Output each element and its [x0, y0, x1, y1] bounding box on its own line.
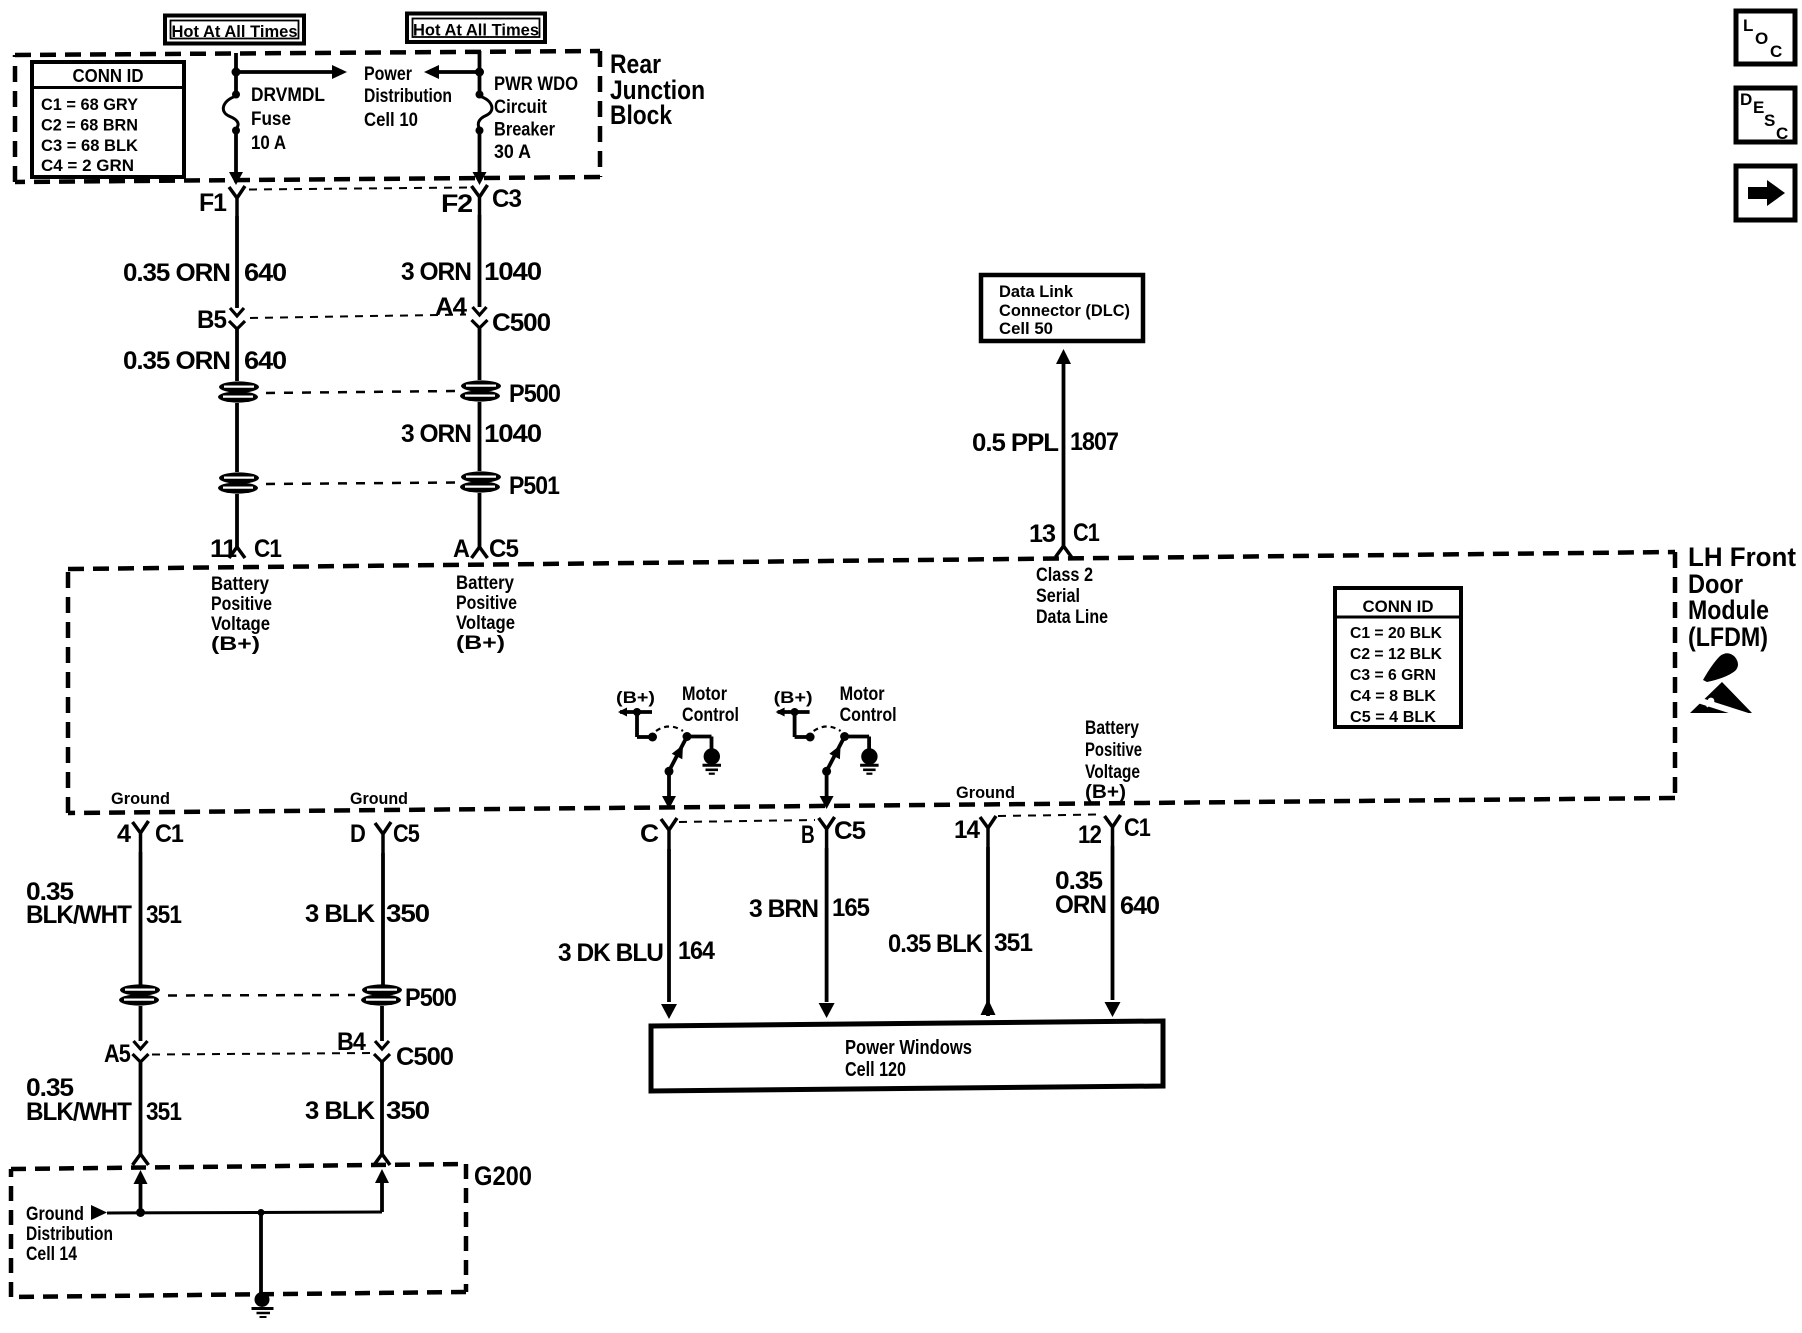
- motor control switch 2: motor to ground: [845, 737, 879, 774]
- svg-text:Motor: Motor: [682, 684, 728, 705]
- svg-text:Voltage: Voltage: [1085, 762, 1140, 783]
- dashed link P500 (ground): [168, 994, 355, 997]
- svg-text:Ground: Ground: [956, 783, 1015, 802]
- svg-text:C1: C1: [1124, 814, 1151, 842]
- svg-text:L: L: [1743, 16, 1753, 35]
- svg-text:(LFDM): (LFDM): [1688, 622, 1768, 652]
- svg-text:F2: F2: [441, 190, 472, 218]
- svg-text:C500: C500: [396, 1043, 453, 1071]
- circuit breaker PWR WDO 30 A: [476, 91, 492, 135]
- wire: left riser into G200 (arrow up): [134, 1170, 148, 1213]
- svg-text:13: 13: [1029, 520, 1055, 548]
- pin 13 connector C1: [1029, 519, 1100, 557]
- grommet P500 (right wire): [460, 380, 560, 408]
- wire: P500 to B4: [380, 1006, 384, 1041]
- svg-text:Hot At All Times: Hot At All Times: [413, 21, 539, 40]
- svg-text:Connector (DLC): Connector (DLC): [999, 301, 1130, 320]
- dashed connector line F1 to F2: [249, 188, 468, 190]
- dashed connector line 14 to 12: [998, 815, 1100, 817]
- wire 3 BLK 350 (pin D to P500): [381, 853, 385, 985]
- arrow wire to Power Distribution (left pointing): [424, 65, 477, 79]
- forward arrow nav box: [1736, 166, 1795, 220]
- label: DRVMDL Fuse 10 A: [251, 85, 325, 154]
- svg-text:Control: Control: [840, 705, 897, 726]
- pin F2 connector C3 terminal: [441, 185, 521, 218]
- LOC nav box: [1736, 11, 1795, 64]
- Data Link Connector (DLC) box: [981, 275, 1143, 341]
- svg-text:BLK/WHT: BLK/WHT: [26, 901, 132, 929]
- svg-text:C: C: [640, 820, 659, 848]
- inline connector A5: [104, 1040, 149, 1068]
- pin 11 connector C1: [210, 535, 282, 563]
- wire 3 BLK 350 (B4 to G200): [374, 1062, 390, 1165]
- svg-text:D: D: [350, 820, 365, 848]
- svg-text:4: 4: [117, 820, 131, 848]
- DESC nav box: [1736, 88, 1795, 143]
- pin 4 connector C1 terminal: [117, 820, 184, 852]
- label: 0.5 PPL 1807: [972, 428, 1118, 457]
- svg-text:C5 = 4 BLK: C5 = 4 BLK: [1350, 709, 1436, 726]
- svg-text:10 A: 10 A: [251, 133, 286, 154]
- svg-text:(B+): (B+): [456, 633, 505, 654]
- svg-text:C1: C1: [155, 820, 184, 848]
- svg-text:1040: 1040: [484, 420, 541, 448]
- grommet P501 (right wire): [460, 471, 560, 500]
- grommet P500 (left wire): [218, 381, 259, 402]
- wire: fuse output arrow to F1: [229, 131, 243, 185]
- fuse DRVMDL 10 A: [223, 91, 240, 135]
- wire 0.35 ORN 640 (12 to Power Windows): [1105, 846, 1121, 1017]
- wire: A4 to P500 grommet: [478, 328, 482, 380]
- svg-text:14: 14: [954, 816, 980, 844]
- svg-text:Battery: Battery: [456, 573, 514, 594]
- label: 3 BLK 350 (second): [305, 1097, 429, 1125]
- svg-text:Distribution: Distribution: [26, 1224, 113, 1245]
- label: 0.35 BLK/WHT 351: [26, 878, 182, 929]
- svg-text:C5: C5: [393, 820, 420, 848]
- svg-text:0.35 ORN: 0.35 ORN: [123, 259, 230, 287]
- svg-text:30 A: 30 A: [494, 142, 531, 163]
- pin D connector C5 terminal: [350, 820, 420, 853]
- svg-text:Cell 120: Cell 120: [845, 1059, 906, 1081]
- Hot At All Times box (left): [165, 16, 304, 44]
- svg-text:Positive: Positive: [1085, 740, 1142, 761]
- svg-text:164: 164: [678, 937, 715, 965]
- wire: motor control 1 arm to module edge: [662, 771, 676, 809]
- motor control switch 1: motor to ground: [687, 737, 721, 774]
- svg-text:Class 2: Class 2: [1036, 565, 1093, 586]
- junction dot on bus (ground drop): [258, 1209, 265, 1216]
- svg-text:351: 351: [146, 901, 182, 929]
- label: Battery Positive Voltage (B+) above pin 12: [1085, 718, 1142, 803]
- svg-text:Fuse: Fuse: [251, 109, 291, 130]
- dashed link P500: [266, 391, 455, 393]
- svg-text:Circuit: Circuit: [494, 97, 548, 118]
- pin F1 connector terminal: [199, 186, 245, 217]
- svg-text:3 BLK: 3 BLK: [305, 1097, 375, 1125]
- svg-text:(B+): (B+): [774, 688, 813, 707]
- dashed connector line A5 to B4: [152, 1053, 372, 1055]
- svg-text:1040: 1040: [484, 258, 541, 286]
- label: 3 BLK 350: [305, 900, 429, 928]
- label: 0.35 ORN 640 (second): [123, 347, 286, 375]
- grommet P501 (left wire): [218, 472, 259, 493]
- svg-text:Ground: Ground: [350, 789, 408, 808]
- motor control switch 2: switch arm: [822, 737, 845, 776]
- label: 0.35 BLK/WHT 351 (second): [26, 1074, 182, 1126]
- label: Class 2 Serial Data Line: [1036, 565, 1108, 628]
- svg-text:C5: C5: [489, 535, 519, 563]
- svg-text:C: C: [1776, 124, 1788, 143]
- svg-text:12: 12: [1078, 821, 1101, 849]
- wire: P501 to pin 11: [235, 494, 239, 548]
- motor control switch 1: (B+) feed stub: [618, 708, 652, 738]
- svg-text:ORN: ORN: [1055, 891, 1106, 919]
- svg-text:3 ORN: 3 ORN: [401, 258, 471, 286]
- svg-text:C4 = 2 GRN: C4 = 2 GRN: [41, 156, 134, 175]
- svg-text:Cell 50: Cell 50: [999, 319, 1053, 338]
- wire 3 ORN 1040 (F2 to A4): [478, 215, 482, 307]
- pin 14 terminal: [954, 816, 996, 847]
- svg-text:165: 165: [832, 894, 870, 922]
- svg-text:O: O: [1755, 29, 1768, 48]
- wire 0.35 BLK 351 (14 to Power Windows, ground arrow): [981, 847, 996, 1016]
- wire: P500 to P501 (left): [235, 403, 239, 472]
- arrow from Ground Distribution label: [91, 1205, 107, 1220]
- junction dot at fuse top: [232, 68, 241, 77]
- label: Motor Control 2: [840, 684, 897, 726]
- svg-text:640: 640: [244, 259, 286, 287]
- label: 3 BRN 165: [749, 894, 870, 923]
- wire: drop to ground electrode G200: [259, 1213, 263, 1293]
- grommet P500 (ground wire right): [361, 984, 456, 1012]
- wire 0.35 ORN 640 (F1 to B5): [235, 216, 239, 308]
- label: (B+) for motor control 1: [616, 688, 655, 707]
- svg-text:(B+): (B+): [1085, 782, 1126, 803]
- wire: B5 to P500 grommet: [235, 329, 239, 381]
- svg-text:351: 351: [146, 1098, 182, 1126]
- svg-text:P500: P500: [509, 380, 560, 408]
- label: (B+) for motor control 2: [774, 688, 813, 707]
- svg-text:Battery: Battery: [1085, 718, 1139, 739]
- wire 3 DK BLU 164 (C to Power Windows): [661, 849, 677, 1019]
- svg-text:Power: Power: [364, 64, 412, 85]
- svg-text:C1 = 20 BLK: C1 = 20 BLK: [1350, 625, 1442, 642]
- svg-text:Positive: Positive: [456, 593, 517, 614]
- svg-text:B4: B4: [337, 1028, 366, 1056]
- svg-text:3 DK BLU: 3 DK BLU: [558, 939, 663, 967]
- wire: breaker output arrow to F2: [473, 131, 487, 185]
- svg-text:Data Link: Data Link: [999, 282, 1074, 301]
- Power Windows Cell 120 box: [651, 1021, 1163, 1091]
- svg-text:Hot At All Times: Hot At All Times: [172, 22, 298, 41]
- label: LH Front Door Module (LFDM): [1688, 542, 1796, 652]
- wire 0.5 PPL 1807 arrow to DLC: [1056, 349, 1071, 546]
- CONN ID table (Rear Junction Block): [32, 62, 184, 177]
- svg-text:A5: A5: [104, 1040, 131, 1068]
- svg-text:Data Line: Data Line: [1036, 607, 1108, 628]
- svg-text:(B+): (B+): [211, 634, 260, 655]
- svg-text:C2 = 12 BLK: C2 = 12 BLK: [1350, 646, 1442, 663]
- label: Battery Positive Voltage (B+) under pin A: [456, 573, 517, 654]
- pin A connector C5: [453, 535, 519, 563]
- label: Ground above pin 4: [111, 789, 170, 808]
- svg-text:Positive: Positive: [211, 594, 272, 615]
- svg-text:Distribution: Distribution: [364, 86, 452, 107]
- svg-text:351: 351: [994, 929, 1033, 957]
- CONN ID table (LFDM): [1335, 588, 1461, 727]
- svg-text:Voltage: Voltage: [456, 613, 515, 634]
- wire: hot feed into DRVMDL fuse: [234, 53, 238, 93]
- ground distribution bus wire: [107, 1212, 382, 1213]
- G200 dashed box: [11, 1164, 466, 1297]
- label: Ground above pin 14: [956, 783, 1015, 802]
- wire 3 ORN 1040 (P500 to P501 right): [478, 402, 482, 471]
- svg-text:S: S: [1764, 111, 1775, 130]
- svg-text:P500: P500: [405, 984, 456, 1012]
- svg-text:0.5 PPL: 0.5 PPL: [972, 429, 1059, 457]
- svg-text:Module: Module: [1688, 595, 1769, 625]
- grommet P500 (ground wire left): [119, 984, 160, 1005]
- svg-text:Power Windows: Power Windows: [845, 1037, 972, 1059]
- label: Motor Control 1: [682, 684, 739, 726]
- svg-text:G200: G200: [474, 1161, 532, 1191]
- label: 0.35 ORN 640: [123, 259, 286, 287]
- pin C terminal: [640, 818, 677, 849]
- pin 12 connector C1 terminal: [1078, 814, 1151, 849]
- dashed connector line B5 to A4: [250, 315, 466, 319]
- wire: right riser into G200 (arrow up): [375, 1169, 389, 1212]
- dashed connector line C to B: [679, 820, 815, 822]
- motor control switch 2: (B+) feed stub: [776, 708, 810, 738]
- pin B connector C5 terminal: [801, 817, 866, 849]
- svg-text:CONN ID: CONN ID: [1363, 597, 1434, 616]
- svg-text:C: C: [1770, 42, 1782, 61]
- svg-text:D: D: [1740, 90, 1752, 109]
- wire: motor control 2 arm to module edge: [820, 771, 834, 809]
- svg-text:Breaker: Breaker: [494, 120, 556, 141]
- inline connector A4 / C500: [435, 293, 550, 337]
- wire 0.35 BLK/WHT 351 (pin 4 to P500): [139, 852, 143, 985]
- svg-text:640: 640: [1120, 892, 1159, 920]
- label: 0.35 BLK 351: [888, 929, 1033, 958]
- ground electrode G200 symbol: [252, 1292, 274, 1317]
- svg-text:Voltage: Voltage: [211, 614, 270, 635]
- arrow wire to Power Distribution: [238, 65, 347, 79]
- junction dot at breaker top: [475, 68, 484, 77]
- svg-text:Motor: Motor: [840, 684, 886, 705]
- motor control switch 2: contacts and gang dashes: [806, 727, 850, 742]
- label: PWR WDO Circuit Breaker 30 A: [494, 74, 578, 163]
- svg-text:C5: C5: [834, 817, 866, 845]
- svg-text:0.35 ORN: 0.35 ORN: [123, 347, 230, 375]
- svg-text:A4: A4: [435, 293, 467, 321]
- svg-text:P501: P501: [509, 472, 560, 500]
- label: 0.35 ORN 640 (two-line): [1055, 867, 1159, 920]
- svg-text:CONN ID: CONN ID: [73, 66, 144, 86]
- svg-text:3 BLK: 3 BLK: [305, 900, 375, 928]
- dashed link P501: [266, 483, 455, 485]
- label: Power Distribution Cell 10: [364, 64, 452, 131]
- svg-text:Control: Control: [682, 705, 739, 726]
- svg-text:350: 350: [386, 1097, 429, 1125]
- svg-text:(B+): (B+): [616, 688, 655, 707]
- wire: P501 to pin A: [478, 493, 482, 548]
- svg-text:DRVMDL: DRVMDL: [251, 85, 325, 106]
- svg-text:LH Front: LH Front: [1688, 542, 1796, 572]
- label: Ground Distribution Cell 14: [26, 1204, 113, 1265]
- label: Ground above pin D: [350, 789, 408, 808]
- junction dot on bus (left riser): [136, 1208, 145, 1217]
- label: G200: [474, 1161, 532, 1191]
- Rear Junction Block dashed box: [15, 51, 600, 182]
- svg-text:C3 = 68 BLK: C3 = 68 BLK: [41, 136, 139, 155]
- svg-text:3 BRN: 3 BRN: [749, 895, 818, 923]
- svg-text:Ground: Ground: [26, 1204, 84, 1225]
- svg-text:B5: B5: [197, 306, 227, 334]
- svg-text:350: 350: [386, 900, 429, 928]
- motor control switch 1: contacts and gang dashes: [648, 727, 692, 742]
- label: Rear Junction Block: [610, 49, 705, 130]
- svg-text:0.35 BLK: 0.35 BLK: [888, 930, 983, 958]
- svg-text:1807: 1807: [1070, 428, 1118, 456]
- svg-text:F1: F1: [199, 189, 227, 217]
- wire 3 BRN 165 (B to Power Windows): [819, 848, 835, 1018]
- svg-text:Cell 14: Cell 14: [26, 1244, 77, 1265]
- svg-text:C500: C500: [492, 309, 550, 337]
- svg-text:E: E: [1753, 98, 1764, 117]
- svg-text:Serial: Serial: [1036, 586, 1080, 607]
- wire 0.35 BLK/WHT 351 (A5 to G200): [133, 1062, 149, 1165]
- svg-text:B: B: [801, 821, 814, 849]
- Hot At All Times box (right): [407, 14, 545, 43]
- svg-text:Block: Block: [610, 100, 673, 130]
- label: Battery Positive Voltage (B+) under pin 11: [211, 574, 272, 655]
- wire: hot feed into PWR WDO breaker: [478, 51, 482, 93]
- svg-text:Cell 10: Cell 10: [364, 110, 418, 131]
- svg-text:C3 = 6 GRN: C3 = 6 GRN: [1350, 667, 1436, 684]
- svg-text:BLK/WHT: BLK/WHT: [26, 1098, 132, 1126]
- svg-text:11: 11: [210, 535, 237, 563]
- inline connector B5: [197, 306, 245, 334]
- svg-text:Battery: Battery: [211, 574, 269, 595]
- wire: P500 to A5: [139, 1006, 143, 1041]
- svg-text:C3: C3: [492, 185, 521, 213]
- label: 3 ORN 1040: [401, 258, 541, 286]
- svg-text:A: A: [453, 535, 470, 563]
- svg-text:C1 = 68 GRY: C1 = 68 GRY: [41, 95, 139, 114]
- svg-text:C2 = 68 BRN: C2 = 68 BRN: [41, 116, 138, 135]
- svg-text:3 ORN: 3 ORN: [401, 420, 471, 448]
- motor control switch 1: switch arm: [665, 737, 688, 776]
- svg-text:PWR WDO: PWR WDO: [494, 74, 578, 95]
- LH Front Door Module dashed box: [68, 552, 1675, 813]
- svg-text:C4 = 8 BLK: C4 = 8 BLK: [1350, 688, 1436, 705]
- inline connector B4 / C500: [337, 1028, 453, 1071]
- svg-text:640: 640: [244, 347, 286, 375]
- svg-text:Ground: Ground: [111, 789, 170, 808]
- svg-text:C1: C1: [1073, 519, 1100, 547]
- svg-text:C1: C1: [254, 535, 282, 563]
- ESD sensitive device symbol: [1690, 653, 1752, 717]
- label: 3 DK BLU 164: [558, 937, 715, 967]
- label: 3 ORN 1040 (second): [401, 420, 541, 448]
